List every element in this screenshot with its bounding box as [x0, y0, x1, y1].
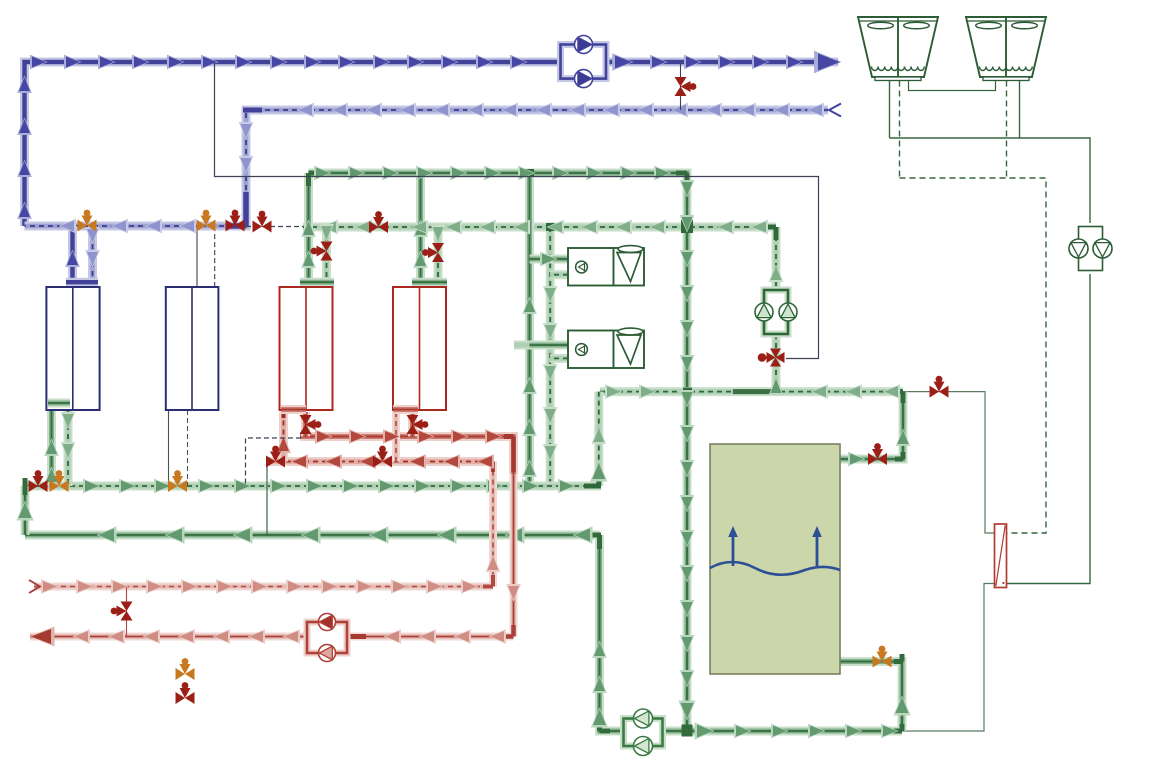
wire: blue hot water supply header: [25, 62, 839, 226]
wire: boiler B1 return drop (dashed): [88, 226, 97, 279]
wire: tower return header dashed to HX: [900, 178, 1047, 533]
wire: chiller 2 bottom connections: [169, 410, 188, 486]
wire: AHU2 supply stub: [514, 341, 568, 350]
wire: tower 2 return (dashed): [1006, 81, 1008, 179]
wire: red riser dashed to district: [489, 462, 497, 587]
heat exchanger HX1: [995, 524, 1007, 588]
wire: cooling tower 2 outlet pipe: [1019, 81, 1021, 139]
boiler B4: [393, 287, 446, 410]
arrows: blue return flow: [59, 103, 825, 268]
arrows: tank loop: [16, 384, 910, 740]
node: boiler B4 top bar: [412, 278, 447, 287]
wire: thin dashed tie line blue-to-green header: [246, 226, 303, 228]
arrows: AHU risers: [522, 252, 558, 477]
wire: AHU2 return stub (dashed): [550, 354, 568, 363]
valve V20 (orange, tank bottom): [873, 646, 892, 668]
wire: AHU supply riser (solid): [525, 173, 534, 486]
valve V21 (red, blue bypass): [675, 77, 697, 96]
wire: boiler B1 supply riser: [68, 226, 77, 281]
arrows: green return: [319, 220, 783, 395]
wire: boiler B4 riser (solid): [416, 173, 425, 279]
wire: chiller C1 condenser riser (solid): [47, 410, 56, 486]
arrows: green supply: [301, 166, 696, 721]
AHU U1: [568, 246, 644, 286]
valve V18 (red, tank top outlet): [868, 443, 887, 465]
valve V4 (red, tie line): [253, 211, 272, 233]
pump P4 (heat recovery twin pump): [755, 290, 797, 334]
wire: red riser lower (pale): [510, 474, 518, 637]
wire: heat recovery pump branch (dashed riser): [772, 227, 781, 291]
arrows: red manifold: [276, 429, 502, 469]
node: tank charge arrows: [728, 526, 822, 566]
valve V10 (red, red return end): [266, 446, 285, 468]
node: boiler B3 top bar: [300, 278, 334, 287]
valve V1 (orange, blue return): [78, 210, 97, 232]
wire: AHU return riser (dashed): [546, 227, 555, 486]
node: red supply start chevron: [29, 580, 40, 593]
wire: tank bottom riser: [840, 662, 902, 732]
wire: tower 1 return (dashed): [899, 81, 901, 179]
wire: tower pump discharge down right side: [1007, 271, 1091, 584]
wire: B4 return riser (dashed): [392, 412, 400, 462]
valve V16 (orange, standalone): [176, 658, 195, 680]
wire: red bottom supply dashed: [34, 583, 493, 591]
pump P5 (tower twin pump): [1069, 227, 1112, 271]
cooling tower CT1: [858, 17, 938, 81]
valve V2 (orange, blue return): [197, 210, 216, 232]
node: B4 bottom bar: [393, 405, 418, 414]
AHU U2: [568, 328, 644, 368]
wire: tower supply header to pump: [890, 138, 1091, 227]
wire: red bypass with valve at x=126: [126, 587, 128, 636]
node: blue return start chevron: [829, 104, 841, 117]
pump P3 (tank loop twin pump): [624, 709, 663, 756]
wire: green line y486 (dashed, to the right): [25, 482, 601, 491]
valve V11 (red, red return mid): [373, 446, 392, 468]
wire: chiller 2 top connections: [197, 226, 215, 287]
wire: tower basin equalizer: [909, 81, 996, 91]
valve V14 (orange, green line C2): [168, 470, 187, 492]
valve V3 (red, blue return): [226, 210, 245, 232]
cooling tower CT2: [966, 17, 1046, 81]
node: boiler B1 top header bar: [66, 278, 98, 287]
wire: red supply header: [300, 437, 514, 475]
valve V17 (red, standalone): [176, 682, 195, 704]
arrows: red bottom loop: [30, 555, 521, 647]
node: red elbows: [284, 405, 514, 637]
wire: boiler B3 drop (dashed): [322, 227, 331, 279]
wire: AHU1 return stub (dashed): [550, 270, 568, 279]
wire: red return header (dashed): [268, 457, 493, 466]
wire: thin line from red return valve down to green return: [266, 462, 268, 535]
wire: B3 supply drop: [301, 412, 310, 437]
wire: AHU1 supply stub: [530, 255, 569, 264]
node: green junctions: [25, 169, 903, 737]
valve V8 (red, B3 supply): [300, 415, 322, 434]
wire: boiler B4 drop (dashed): [434, 227, 443, 279]
node: B3 bottom bar: [281, 405, 306, 414]
wire: thin blue bypass line with valve between blue supply and return: [680, 63, 682, 110]
wire: thin dashed tie from red supply header down to green line: [246, 438, 302, 486]
wire: red return riser B3: [279, 412, 288, 462]
wire: B4 supply drop: [408, 412, 417, 437]
node: blue return elbow: [230, 110, 262, 226]
wire: left riser between green lines: [21, 486, 30, 535]
wire: HX bottom to tank return line: [902, 584, 995, 732]
wire: thin control line from blue supply to 4-way valve: [215, 62, 819, 359]
valve V7 (red, B4 drop): [422, 243, 444, 262]
node: chiller C1 bottom bar: [48, 399, 70, 408]
valve V19 (red, HX branch): [930, 376, 949, 398]
valve V13 (orange, green line left): [50, 470, 69, 492]
wire: tank loop upper dashed line: [600, 387, 903, 396]
wire: boiler B3 riser (solid): [304, 173, 313, 279]
wire: cooling tower 1 outlet pipe: [889, 81, 891, 139]
wire: green supply header to tank loop: [309, 173, 688, 731]
wire: tank bottom line y731: [663, 727, 903, 736]
wire: blue return header (dashed): [25, 110, 829, 226]
pump P2 (red twin pump): [307, 614, 347, 662]
wire: tank loop branch to HX (solid thin): [903, 392, 995, 533]
valve V22 (red 4-way mixing valve): [758, 349, 785, 367]
arrows: blue supply flow: [17, 51, 841, 219]
wire: green return line y535: [25, 531, 600, 540]
wire: riser from green line y486 to dashed line: [594, 392, 603, 486]
valve V15 (red, red bypass): [111, 602, 133, 621]
wire: tank top outlet to riser: [840, 392, 903, 459]
pump P1 (blue twin pump): [561, 36, 607, 88]
wire: red bottom return: [30, 633, 514, 641]
chiller C2: [166, 287, 219, 410]
valve V5 (red, green return header): [369, 211, 388, 233]
boiler B3: [280, 287, 333, 410]
wire: chiller C1 condenser drop (dashed): [64, 407, 73, 486]
tank: thermal storage tank: [710, 444, 840, 674]
valve V6 (red, B3 drop): [311, 242, 333, 261]
valve V9 (red, B4 supply): [407, 415, 429, 434]
chiller C1: [46, 287, 99, 410]
wire: riser x600 down to pump line: [600, 535, 624, 731]
valve V12 (red, green line left): [29, 470, 48, 492]
wire: green return header (dashed): [303, 223, 776, 232]
